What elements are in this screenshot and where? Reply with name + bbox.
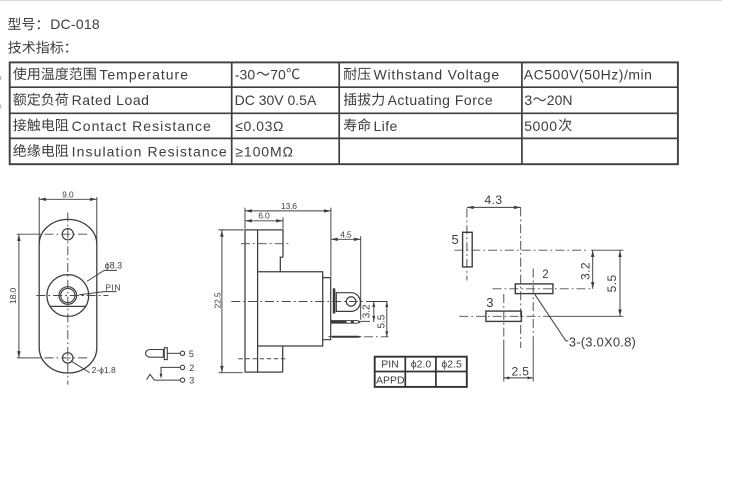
side view lower pin centerline extension (364, 336, 388, 338)
svg-text:70: 70 (270, 67, 286, 83)
label PIN with leader (79, 283, 121, 296)
svg-text:4.5: 4.5 (340, 229, 352, 239)
footprint dimension 5.5 (605, 250, 622, 316)
side dimension 5.5 (377, 302, 389, 337)
schematic center pin plug symbol (146, 350, 164, 358)
svg-text:6.0: 6.0 (258, 211, 270, 221)
side view barrel centerline (241, 243, 289, 245)
svg-text:APPD: APPD (376, 375, 405, 387)
title model number 型号：DC-018 (8, 16, 100, 32)
subtitle 技术指标： (8, 41, 68, 54)
label phi 8.3 with leader (87, 261, 122, 282)
svg-text:Contact Resistance: Contact Resistance (72, 118, 212, 134)
footprint horizontal centerline (455, 249, 587, 251)
dimension 4.5 (331, 229, 361, 319)
svg-text:ϕ2.5: ϕ2.5 (441, 359, 462, 371)
pad 3 (486, 311, 522, 321)
dimension 18.0 (8, 234, 21, 358)
wire to terminal 2 with switch arrow (160, 367, 181, 378)
pad 5 (463, 232, 473, 267)
svg-text:3: 3 (189, 376, 194, 386)
svg-text:5.5: 5.5 (605, 274, 619, 292)
svg-text:13.6: 13.6 (281, 201, 297, 211)
svg-text:3.2: 3.2 (578, 262, 592, 280)
front view bottom mounting hole (62, 353, 72, 363)
side view hidden hole line (238, 358, 286, 360)
svg-text:≥100MΩ: ≥100MΩ (235, 143, 294, 159)
side view main body (258, 272, 323, 346)
side view tab centerline (231, 301, 364, 303)
pin size table (375, 357, 467, 387)
side dimension 3.2 (362, 302, 376, 322)
side view barrel block (258, 230, 283, 272)
page top hairline (0, 0, 722, 1)
svg-text:2: 2 (189, 363, 194, 373)
side view flange (245, 230, 258, 372)
terminal 3 (180, 378, 184, 382)
wire to terminal 5 (167, 352, 180, 354)
svg-text:5.5: 5.5 (377, 314, 388, 328)
table row 2: rated load (13, 92, 572, 108)
pad 2 vertical centerline (532, 269, 534, 345)
svg-text:≤0.03Ω: ≤0.03Ω (235, 118, 284, 134)
side view tab hole (346, 297, 356, 307)
pad 2 (515, 284, 553, 294)
svg-text:2: 2 (542, 269, 548, 281)
side view tab mounting flange (dark) (333, 288, 336, 313)
front view pin ring inner (61, 288, 75, 302)
front view top mounting hole (62, 229, 73, 240)
table row 1: temperature (13, 67, 652, 83)
dimension 6.0 (245, 211, 283, 229)
leader 3-(3.0X0.8) (535, 294, 636, 349)
svg-text:5000: 5000 (524, 118, 557, 134)
svg-text:3: 3 (486, 295, 493, 310)
front view pin ring outer (59, 287, 77, 305)
front view barrel chord flat (50, 305, 86, 307)
pad 2 horizontal centerline (493, 288, 594, 290)
front view vertical centerline (67, 213, 69, 385)
svg-text:ϕ8.3: ϕ8.3 (105, 261, 123, 271)
side view solder tab (336, 293, 360, 312)
svg-text:20N: 20N (547, 92, 573, 108)
svg-text:5: 5 (189, 349, 194, 359)
footprint dimension 3.2 (578, 250, 594, 289)
svg-text:3: 3 (524, 92, 532, 108)
svg-text:DC 30V 0.5A: DC 30V 0.5A (235, 92, 317, 108)
page left edge marks (0, 76, 1, 80)
svg-text:Insulation Resistance: Insulation Resistance (72, 143, 228, 159)
front view top hole horizontal centerline (17, 233, 42, 235)
svg-text:AC500V(50Hz)/min: AC500V(50Hz)/min (524, 67, 653, 83)
svg-text:Actuating Force: Actuating Force (388, 92, 494, 108)
svg-text:Temperature: Temperature (99, 67, 189, 83)
side view bottom block (258, 346, 283, 372)
wire to terminal 3 with spring contact (147, 374, 181, 380)
table row 3: contact resistance (13, 118, 572, 134)
svg-text:2.5: 2.5 (511, 365, 529, 379)
table row 4: insulation resistance (13, 143, 294, 159)
terminal 2 (180, 365, 184, 369)
svg-text:Rated Load: Rated Load (72, 92, 150, 108)
side view contact sleeve (323, 278, 331, 340)
front view center barrel circle phi 8.3 (47, 275, 89, 317)
dimension 4.3 (467, 193, 521, 280)
dimension 9.0 (39, 189, 97, 243)
svg-text:Withstand Voltage: Withstand Voltage (374, 67, 500, 83)
pad 3 horizontal centerline (459, 315, 550, 317)
svg-text:DC-018: DC-018 (50, 16, 100, 32)
svg-text:-30: -30 (235, 67, 255, 83)
svg-text:2-ϕ1.8: 2-ϕ1.8 (92, 365, 116, 375)
svg-text:4.3: 4.3 (485, 193, 503, 207)
svg-text:PIN: PIN (105, 283, 121, 293)
pin table texts (376, 359, 462, 387)
front view bottom hole horizontal centerline (17, 357, 42, 359)
spec table frame (10, 62, 678, 164)
front view body outline (39, 219, 97, 373)
dimension 22.5 (212, 230, 243, 373)
svg-text:18.0: 18.0 (8, 288, 18, 304)
dimension 13.6 (245, 201, 331, 277)
pad 3 vertical centerline (503, 294, 505, 341)
svg-text:Life: Life (374, 118, 398, 134)
label 2-phi1.8 with leader (71, 361, 116, 375)
svg-text:9.0: 9.0 (62, 189, 74, 199)
svg-text:ϕ2.0: ϕ2.0 (411, 359, 432, 371)
side view lower pin (329, 336, 363, 338)
svg-text:3.2: 3.2 (362, 304, 373, 318)
svg-text:PIN: PIN (381, 359, 399, 371)
side view upper pin centerline extension (361, 320, 374, 322)
footprint vertical centerline (520, 207, 522, 348)
svg-text:3-(3.0X0.8): 3-(3.0X0.8) (569, 334, 636, 349)
schematic plug flange bar (164, 348, 167, 360)
terminal 5 (180, 351, 184, 355)
side view upper pin (331, 320, 362, 324)
svg-text:22.5: 22.5 (212, 292, 222, 308)
front view center horizontal centerline (36, 295, 108, 297)
dimension 2.5 (504, 365, 533, 380)
svg-text:5: 5 (452, 232, 459, 247)
